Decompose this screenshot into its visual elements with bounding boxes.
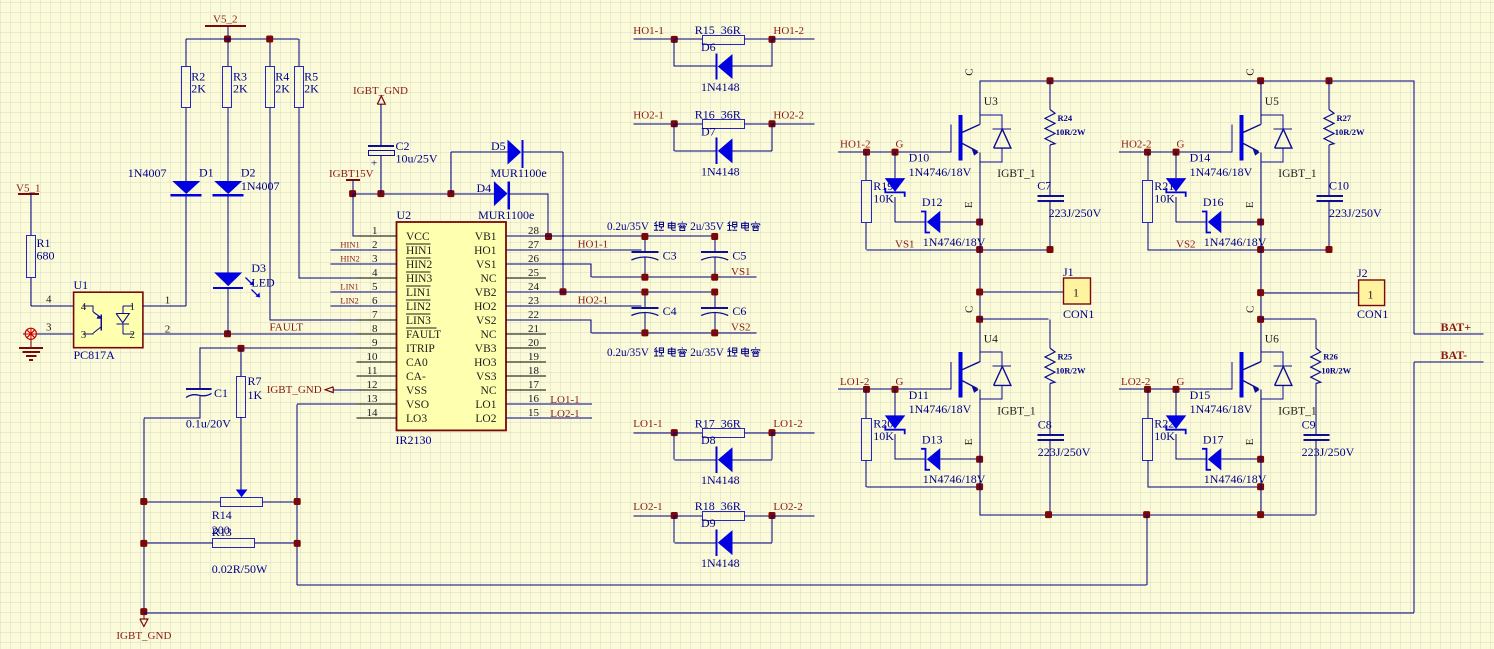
svg-text:U3: U3 [984,96,998,108]
zener diode D16 1N4746/18V [1176,221,1207,223]
svg-text:11: 11 [367,365,378,377]
svg-text:18: 18 [528,365,540,377]
svg-text:LO2: LO2 [475,413,496,425]
junction C5 bottom [711,274,718,281]
wire VSO pin13 to shunt [297,403,396,405]
pin 15 LO2 [506,417,546,419]
svg-text:10K: 10K [1154,429,1175,443]
wire cell emitter rail [1148,249,1330,251]
svg-text:1: 1 [372,225,378,237]
wire R3 to D2 [227,108,229,181]
svg-text:10u/25V: 10u/25V [396,152,438,166]
wire phase left to J1 [980,291,1064,293]
svg-text:C: C [1245,306,1257,313]
svg-text:HIN1: HIN1 [340,239,359,249]
wire emitter U5 [1260,152,1262,222]
wire VCC bus [353,193,494,195]
net label LIN2 [330,305,396,307]
resistor R15 36R [674,38,702,40]
svg-text:J2: J2 [1357,266,1368,280]
power port IGBT_GND bottom [140,608,147,615]
wire R2 to D1 [185,108,187,181]
svg-text:HIN3: HIN3 [406,273,432,285]
svg-text:IGBT_1: IGBT_1 [1278,405,1317,417]
svg-text:2K: 2K [275,82,290,96]
svg-text:1N4148: 1N4148 [701,556,740,570]
svg-text:R17 36R: R17 36R [695,416,741,430]
resistor R16 36R [674,123,702,125]
diode D8 1N4148 [673,433,675,460]
IGBT U5 [1231,125,1233,152]
wire gate row LO1-2 [838,388,951,390]
svg-text:U5: U5 [1265,96,1279,108]
junction emitter D13 [976,456,983,463]
junction shunt right bottom [294,540,301,547]
svg-text:223J/250V: 223J/250V [1049,206,1102,220]
junction gate R21 [1144,149,1151,156]
wire V5 top rail [186,38,299,40]
svg-text:223J/250V: 223J/250V [1329,206,1382,220]
wire cell emitter rail [1148,486,1261,488]
svg-text:LO3: LO3 [406,413,427,425]
svg-text:21: 21 [528,323,539,335]
svg-text:D11: D11 [909,388,929,402]
junction phase snubber U4 [976,316,983,323]
svg-text:D16: D16 [1203,195,1224,209]
pin 16 LO1 [506,403,546,405]
wire LO2 pin15 [506,417,592,419]
pin 11 CA- [357,375,397,377]
pin 10 CA0 [357,361,397,363]
svg-text:C4: C4 [663,304,677,318]
junction C7 bottom [1047,246,1054,253]
junction gate D10 [892,149,899,156]
svg-text:R13: R13 [212,525,232,539]
svg-text:FAULT: FAULT [270,322,304,334]
junction C6 bottom [711,329,718,336]
svg-text:10: 10 [367,351,379,363]
svg-text:1N4746/18V: 1N4746/18V [1190,402,1253,416]
svg-text:27: 27 [528,239,540,251]
svg-text:2u/35V: 2u/35V [690,221,724,233]
svg-text:R15 36R: R15 36R [695,23,741,37]
resistor R4 2K [266,67,275,108]
pin 1 VCC [357,235,397,237]
svg-text:HO1: HO1 [474,245,497,257]
wire phase right to J2 [1261,292,1359,294]
resistor R26 10R/2W snubber [1315,319,1317,348]
junction D5-VB2 [560,288,567,295]
resistor R13 0.02R/50W [213,539,255,548]
diode D9 1N4148 [673,516,675,543]
svg-text:D8: D8 [701,433,716,447]
junction R7 top [238,345,245,352]
svg-text:NC: NC [481,273,497,285]
opto-coupler U1 PC817A [74,292,143,348]
wire BAT+ top rail [980,80,1414,82]
wire collector U6 [1260,319,1262,362]
svg-text:V5_2: V5_2 [213,14,237,26]
junction emitter bus U6 [1257,511,1264,518]
wire U1 pin2 FAULT net [143,333,397,335]
svg-text:C: C [1245,68,1257,75]
svg-text:C1: C1 [214,386,228,400]
junction V5_2 rail [224,36,231,43]
svg-text:26: 26 [528,253,540,265]
svg-text:LO1-1: LO1-1 [633,418,662,430]
capacitor C7 223J/250V [1038,195,1064,197]
junction shunt left top [140,498,147,505]
wire low-side emitter bus [980,514,1316,516]
junction phase snubber U6 [1257,316,1264,323]
svg-text:R26: R26 [1323,352,1338,362]
diode D6 1N4148 [673,39,675,66]
wire VS2 pin22 [506,319,591,321]
svg-text:C9: C9 [1302,417,1316,431]
svg-text:10K: 10K [873,429,894,443]
wire D2 to D3 [227,195,229,272]
wire collector U3 [979,81,981,125]
pin 13 VSO [357,403,397,405]
junction gate D11 [892,386,899,393]
svg-text:14: 14 [367,407,379,419]
svg-text:D15: D15 [1190,388,1211,402]
svg-text:C10: C10 [1329,179,1349,193]
wire R5 to U2 pin4 [298,108,300,279]
pin 27 HO1 [506,249,546,251]
svg-text:HO1-2: HO1-2 [773,25,804,37]
LED D3 [214,273,242,287]
pin 21 NC [506,333,546,335]
junction D5 column [447,190,454,197]
svg-text:U2: U2 [397,208,412,222]
svg-text:R25: R25 [1058,352,1073,362]
svg-text:D17: D17 [1203,432,1224,446]
junction top rail U5 [1257,77,1264,84]
svg-text:9: 9 [372,337,378,349]
pin 19 HO3 [506,361,546,363]
svg-text:E: E [1244,438,1256,445]
resistor R5 2K [295,67,304,108]
junction shunt right top [294,498,301,505]
svg-text:4: 4 [46,294,52,306]
junction R4 rail [266,36,273,43]
capacitor C9 223J/250V [1303,434,1329,436]
svg-text:IGBT_GND: IGBT_GND [353,85,408,97]
wire D4 to pin28 [510,193,549,195]
wire U1 pin1 to D1 [143,305,186,307]
svg-text:HO2-2: HO2-2 [773,109,804,121]
svg-text:0.2u/35V: 0.2u/35V [607,221,649,233]
junction shunt left bottom [140,540,147,547]
connector J1 CON1 [1064,278,1091,304]
zener diode D10 1N4746/18V [894,152,896,178]
svg-text:2: 2 [372,239,378,251]
wire bottom rail to BAT- [144,612,1414,614]
svg-text:HO3: HO3 [474,357,497,369]
svg-text:D1: D1 [199,166,214,180]
junction R15 right [769,36,776,43]
junction phase J2 [1257,289,1264,296]
pin 17 NC [506,389,546,391]
pin 2 HIN1 [357,249,397,251]
net label LO2-1 [634,515,675,517]
svg-text:D5: D5 [491,139,506,153]
wire collector U4 [979,319,981,362]
pin 12 VSS [357,389,397,391]
svg-text:2K: 2K [304,82,319,96]
svg-text:MUR1100e: MUR1100e [478,208,534,222]
svg-text:LO1-1: LO1-1 [550,394,579,406]
svg-text:10R/2W: 10R/2W [1321,366,1351,376]
svg-text:IGBT_1: IGBT_1 [997,168,1036,180]
junction C10 bottom [1326,246,1333,253]
junction emitter D17 [1257,456,1264,463]
wire D5 to pin24 [523,151,563,153]
svg-text:MUR1100e: MUR1100e [491,166,547,180]
svg-text:8: 8 [372,323,378,335]
diode D1 1N4007 [172,181,200,194]
svg-text:U1: U1 [74,278,89,292]
svg-text:PC817A: PC817A [74,348,116,362]
wire HO1 pin27 [506,249,641,251]
svg-text:HIN2: HIN2 [406,259,432,271]
svg-text:FAULT: FAULT [406,329,441,341]
svg-text:VS1: VS1 [476,259,497,271]
svg-text:NC: NC [481,385,497,397]
svg-text:D3: D3 [251,261,266,275]
junction C3 bottom [641,274,648,281]
svg-text:1N4007: 1N4007 [241,179,280,193]
net label LIN1 [330,291,396,293]
wire emitter U4 [979,390,981,460]
net label HO2-2 [772,123,814,125]
pin 4 HIN3 [357,277,397,279]
svg-text:24: 24 [528,281,540,293]
capacitor C10 223J/250V [1317,195,1343,197]
svg-text:1N4148: 1N4148 [701,80,740,94]
svg-text:1: 1 [1368,288,1374,302]
capacitor C1 0.1u/20V [199,348,201,389]
svg-text:CA0: CA0 [406,357,428,369]
junction C4 bottom [641,329,648,336]
svg-text:VB1: VB1 [475,231,497,243]
junction R17 left [671,429,678,436]
pin 7 LIN3 [357,319,397,321]
svg-text:VB2: VB2 [475,287,497,299]
svg-text:3: 3 [46,322,52,334]
svg-text:0.2u/35V: 0.2u/35V [607,347,649,359]
potentiometer R14 200 [236,490,248,498]
wire emitter sense rail [297,584,1146,586]
svg-text:VS3: VS3 [476,371,497,383]
pin 24 VB2 [506,291,546,293]
zener diode D14 1N4746/18V [1175,152,1177,178]
resistor R2 2K [182,67,191,108]
svg-text:ITRIP: ITRIP [406,343,435,355]
svg-text:LIN1: LIN1 [406,287,431,299]
svg-text:2K: 2K [191,82,206,96]
capacitor C3 [644,237,646,253]
wire snubber stub U6 [1261,318,1316,320]
wire VS1 pin26 [506,263,591,265]
junction C5 top [711,233,718,240]
pin 8 FAULT [357,333,397,335]
wire R1 to U1 pin4 [30,278,32,306]
junction emitter rail [1257,483,1264,490]
svg-text:28: 28 [528,225,540,237]
svg-text:VS1: VS1 [731,266,751,278]
svg-text:C5: C5 [732,249,746,263]
svg-text:VSO: VSO [406,399,429,411]
svg-text:10K: 10K [1154,192,1175,206]
wire bus to D5 [450,152,452,194]
wire cell emitter rail [867,486,980,488]
pin 6 LIN2 [357,305,397,307]
svg-text:IGBT_GND: IGBT_GND [267,384,322,396]
svg-text:VCC: VCC [406,231,430,243]
svg-text:D9: D9 [701,516,716,530]
diode D4 MUR1100e [494,181,508,206]
svg-text:22: 22 [528,309,539,321]
svg-text:R27: R27 [1337,113,1352,123]
junction emitter rail [976,483,983,490]
junction R16 left [671,120,678,127]
svg-text:17: 17 [528,379,540,391]
svg-text:IGBT_1: IGBT_1 [1278,168,1317,180]
junction top rail R24 [1047,77,1054,84]
resistor R7 1K [240,348,242,376]
net label HIN2 [330,263,396,265]
pin 28 VB1 [506,235,546,237]
svg-text:D12: D12 [922,195,943,209]
wire snubber stub U4 [980,318,1049,320]
wire emitter U6 [1260,390,1262,460]
resistor R24 10R/2W snubber [1049,81,1051,110]
capacitor C4 [644,292,646,308]
wire VB1 pin28 to caps [506,235,715,237]
net label HO1-2 [772,38,814,40]
junction emitter bus C8 [1045,511,1052,518]
IGBT U3 [950,125,952,152]
svg-text:2: 2 [130,329,136,341]
junction VCC column [349,190,356,197]
svg-text:LED: LED [251,275,275,289]
svg-text:16: 16 [528,393,540,405]
net label HIN1 [330,249,396,251]
svg-text:D13: D13 [922,432,943,446]
junction C6 top [711,289,718,296]
svg-text:BAT-: BAT- [1441,348,1468,362]
zener diode D13 1N4746/18V [895,458,926,460]
wire VB2 pin24 to caps [506,291,715,293]
svg-text:LO1-2: LO1-2 [773,418,802,430]
svg-text:3: 3 [81,329,87,341]
capacitor C8 223J/250V [1038,434,1064,436]
svg-text:12: 12 [367,379,378,391]
svg-text:LIN2: LIN2 [406,301,431,313]
junction emitter bus drop [1143,511,1150,518]
svg-text:R24: R24 [1058,113,1073,123]
wire emitter bus drop to sense rail [1146,515,1148,585]
junction D4-VB1 [545,233,552,240]
svg-text:23: 23 [528,295,540,307]
wire cell emitter rail [867,249,1051,251]
wire BAT- [1414,361,1483,363]
zener diode D11 1N4746/18V [894,389,896,415]
svg-text:C3: C3 [663,249,677,263]
svg-text:R16 36R: R16 36R [695,108,741,122]
svg-text:10K: 10K [873,192,894,206]
junction C2 bottom [377,190,384,197]
svg-text:7: 7 [372,309,378,321]
svg-text:680: 680 [37,249,55,263]
connector J2 CON1 [1359,280,1385,306]
svg-text:LO2-1: LO2-1 [633,501,662,513]
svg-text:25: 25 [528,267,540,279]
pin 5 LIN1 [357,291,397,293]
svg-text:C: C [964,68,976,75]
svg-text:C6: C6 [732,304,746,318]
svg-text:HIN2: HIN2 [340,253,359,263]
svg-text:J1: J1 [1063,265,1074,279]
net label HO1-1 [634,38,675,40]
svg-text:1N4148: 1N4148 [701,473,740,487]
resistor R25 10R/2W snubber [1049,319,1051,348]
junction emitter rail [1257,246,1264,253]
junction R15 left [671,36,678,43]
ground [30,340,32,349]
junction top rail R27 [1326,77,1333,84]
junction gate D14 [1173,149,1180,156]
junction gate R22 [1144,386,1151,393]
svg-text:1K: 1K [248,388,263,402]
svg-text:223J/250V: 223J/250V [1302,445,1355,459]
svg-text:VB3: VB3 [475,343,497,355]
junction emitter D12 [976,219,983,226]
svg-text:LO2-1: LO2-1 [550,408,579,420]
svg-text:10R/2W: 10R/2W [1335,127,1365,137]
svg-text:HO1-1: HO1-1 [578,238,609,250]
svg-text:C: C [964,306,976,313]
resistor R3 2K [223,67,232,108]
svg-text:CON1: CON1 [1357,307,1388,321]
wire gate row HO1-2 [838,151,951,153]
svg-text:1N4007: 1N4007 [128,166,167,180]
svg-text:2K: 2K [233,82,248,96]
svg-text:VS2: VS2 [476,315,497,327]
pin 20 VB3 [506,347,546,349]
svg-text:15: 15 [528,407,540,419]
svg-text:HO1-1: HO1-1 [633,25,664,37]
net label LO1-1 [634,432,675,434]
wire collector U5 [1260,81,1262,125]
svg-text:4: 4 [81,301,87,313]
resistor R27 10R/2W snubber [1328,81,1330,110]
svg-text:HO2-1: HO2-1 [578,294,609,306]
junction C4 top [641,289,648,296]
svg-text:E: E [1244,201,1256,208]
junction emitter rail [976,246,983,253]
svg-text:1: 1 [1073,286,1079,300]
resistor R17 36R [674,432,702,434]
svg-text:1N4148: 1N4148 [701,164,740,178]
svg-text:E: E [963,438,975,445]
zener diode D17 1N4746/18V [1176,458,1207,460]
svg-text:C8: C8 [1038,417,1052,431]
wire R4 to U2 pin7 [269,108,271,321]
svg-text:+: + [371,158,377,170]
